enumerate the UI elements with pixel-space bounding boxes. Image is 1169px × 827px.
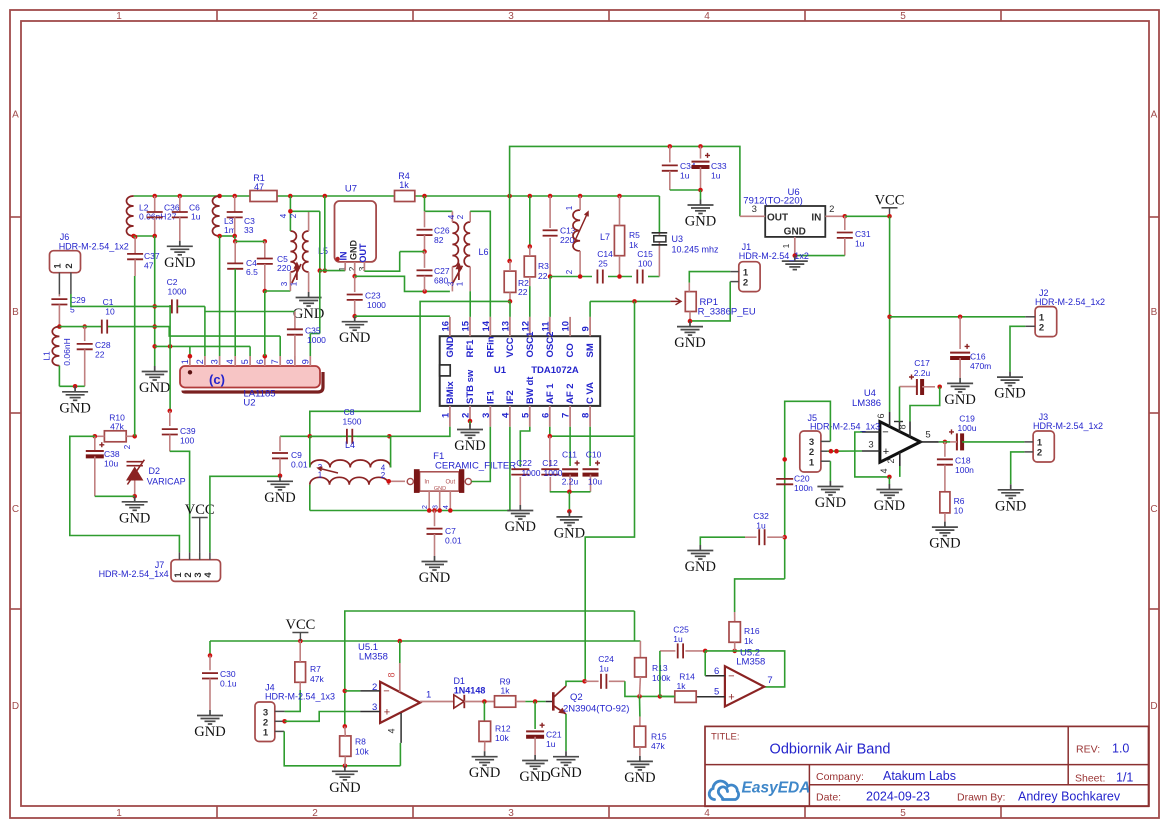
svg-text:R_3386P_EU: R_3386P_EU: [698, 307, 756, 318]
svg-text:1: 1: [565, 205, 574, 210]
filter F1 pin circles: [407, 478, 413, 484]
svg-text:8: 8: [581, 413, 592, 418]
capacitor C19 polarized horizontal: [956, 433, 958, 450]
wire osc bottom: [550, 276, 592, 278]
pin J1.2: [730, 281, 739, 283]
connector J5: [800, 431, 821, 472]
resistor R1: [250, 191, 277, 202]
pin U7.1: [344, 262, 346, 271]
IC U6 7912: [765, 206, 825, 237]
svg-text:L7: L7: [600, 232, 610, 242]
svg-text:4: 4: [443, 505, 450, 509]
svg-text:3: 3: [280, 281, 289, 286]
wire: [658, 196, 660, 233]
svg-text:7: 7: [767, 675, 772, 686]
svg-text:1: 1: [781, 243, 791, 248]
svg-text:2: 2: [123, 444, 132, 449]
pin J2.2: [1025, 325, 1035, 327]
svg-text:1k: 1k: [399, 180, 409, 190]
pin U6.3: [740, 215, 765, 217]
svg-text:C31: C31: [855, 229, 871, 239]
wire J1.1 to RP1: [689, 272, 730, 283]
wiper arrow RP1: [670, 300, 680, 302]
pin J5.1: [821, 460, 831, 462]
svg-text:C22: C22: [516, 458, 532, 468]
wire U1 pin7 C11: [569, 427, 571, 466]
inductor L3: [212, 196, 219, 236]
svg-text:OUT: OUT: [767, 213, 788, 224]
svg-text:1: 1: [809, 458, 815, 469]
title block row line 1: [705, 764, 1149, 766]
connector J4: [255, 702, 275, 742]
node: [132, 494, 137, 499]
svg-text:GND: GND: [994, 386, 1025, 402]
svg-text:R7: R7: [310, 664, 321, 674]
svg-text:C38: C38: [104, 449, 120, 459]
wire L6 sec top to U1 pin14: [470, 211, 490, 317]
wire: [170, 451, 190, 552]
svg-text:GND: GND: [194, 724, 225, 740]
node: [152, 304, 157, 309]
svg-text:6: 6: [540, 413, 551, 418]
ground below L1: [62, 386, 88, 400]
node: [582, 679, 587, 684]
connector J1: [739, 262, 760, 292]
svg-text:1: 1: [456, 281, 465, 286]
svg-text:10: 10: [561, 321, 572, 332]
svg-text:10k: 10k: [495, 733, 509, 743]
node: [688, 319, 693, 324]
node: [217, 234, 222, 239]
svg-text:1: 1: [263, 728, 269, 739]
node: [887, 475, 892, 480]
svg-text:HDR-M-2.54_1x2: HDR-M-2.54_1x2: [1035, 297, 1105, 307]
wire: [134, 195, 250, 197]
svg-text:1N4148: 1N4148: [454, 685, 486, 695]
ground below C16: [947, 378, 973, 392]
wire C35 feed: [205, 311, 295, 313]
svg-text:470m: 470m: [970, 361, 991, 371]
node: [937, 385, 942, 390]
U4 pin4: [899, 453, 901, 467]
wire: [134, 235, 136, 238]
svg-text:L1: L1: [42, 351, 52, 361]
connector J6: [50, 251, 81, 273]
ground below L5: [296, 292, 322, 306]
svg-text:Sheet:: Sheet:: [1075, 773, 1105, 785]
resistor R4: [395, 191, 415, 202]
U1 bottom pin stubs: [449, 406, 451, 427]
svg-text:A: A: [12, 110, 19, 121]
wire: [220, 235, 235, 237]
wire: [424, 196, 426, 211]
svg-text:C26: C26: [434, 226, 450, 236]
node: [188, 354, 193, 359]
svg-text:1k: 1k: [744, 636, 754, 646]
svg-text:R5: R5: [629, 230, 640, 240]
wire R2 line to C8 node: [310, 301, 510, 436]
title block outline: [705, 726, 1149, 806]
pin J6.1: [58, 273, 60, 295]
svg-text:1000: 1000: [367, 300, 386, 310]
ground below R8: [332, 766, 358, 780]
node: [843, 214, 848, 219]
wire: [290, 210, 319, 212]
wire inv input: [345, 690, 360, 692]
transformer L4 secondary: [310, 477, 389, 485]
svg-text:RFin: RFin: [485, 336, 496, 357]
svg-text:C30: C30: [220, 669, 236, 679]
svg-text:HDR-M-2.54_1x2: HDR-M-2.54_1x2: [59, 242, 129, 252]
wire R10 to J7.1: [70, 436, 180, 552]
ground below J2: [997, 372, 1023, 386]
svg-text:C7: C7: [445, 526, 456, 536]
node: [93, 434, 98, 439]
wire: [899, 466, 901, 477]
node: [73, 384, 78, 389]
svg-text:C: C: [12, 504, 19, 515]
node: [168, 344, 173, 349]
svg-text:B: B: [12, 307, 19, 318]
svg-text:GND: GND: [59, 400, 90, 416]
U5.1 pin8: [399, 641, 401, 663]
svg-text:VCC: VCC: [875, 192, 905, 208]
wire: [509, 196, 511, 261]
svg-text:3: 3: [210, 359, 220, 364]
svg-text:VCC: VCC: [285, 617, 315, 633]
transformer L5 primary: [290, 231, 296, 272]
svg-text:RF1: RF1: [465, 339, 476, 358]
wire: [950, 441, 957, 443]
svg-text:STB sw: STB sw: [465, 369, 476, 404]
wire J1.2 to RP1 bottom: [690, 282, 730, 321]
resistor R6: [940, 492, 950, 513]
pin J6.2: [70, 273, 72, 295]
wire SM net drop: [634, 301, 636, 436]
capacitor C10 polarized: [583, 468, 599, 470]
node: [829, 449, 834, 454]
svg-text:R3: R3: [538, 261, 549, 271]
svg-text:GND: GND: [784, 227, 806, 238]
capacitor C11 polarized: [562, 468, 578, 470]
wire: [178, 305, 205, 307]
svg-text:CO: CO: [565, 343, 576, 357]
capacitor C4: [234, 241, 236, 263]
wire: [659, 651, 661, 697]
transistor Q2: [546, 701, 554, 703]
node: [567, 490, 572, 495]
svg-text:6.5: 6.5: [246, 267, 258, 277]
wire J5.1 gnd: [829, 461, 831, 481]
capacitor C9: [279, 436, 281, 451]
svg-text:D2: D2: [149, 466, 161, 476]
node: [352, 314, 357, 319]
capacitor C1: [101, 320, 103, 334]
svg-text:−: −: [882, 427, 888, 439]
ground below C22: [507, 505, 533, 519]
svg-text:1u: 1u: [756, 521, 766, 531]
ground below C9: [267, 476, 293, 490]
svg-text:6: 6: [714, 666, 719, 677]
svg-text:GND: GND: [454, 438, 485, 454]
svg-text:C19: C19: [959, 414, 975, 424]
svg-text:Date:: Date:: [816, 792, 841, 804]
capacitor C30: [209, 656, 211, 671]
svg-text:2: 2: [64, 263, 75, 268]
ground below C30: [197, 710, 223, 724]
pin U6.1: [794, 237, 796, 256]
node: [343, 689, 348, 694]
node: [668, 144, 673, 149]
node: [637, 694, 642, 699]
svg-text:1: 1: [116, 808, 122, 819]
wire: [845, 215, 890, 217]
wire VCC rail down: [889, 216, 891, 412]
resistor R8: [340, 736, 351, 756]
svg-text:1.0: 1.0: [1112, 742, 1129, 756]
wire C1 line: [59, 326, 101, 328]
svg-text:1u: 1u: [855, 239, 865, 249]
pin J4.1: [275, 730, 284, 732]
svg-text:1u: 1u: [546, 739, 556, 749]
svg-text:3: 3: [372, 702, 377, 713]
capacitor C25: [660, 650, 676, 652]
trimmer arrow L6: [453, 264, 463, 283]
node: [468, 419, 473, 424]
wire U2 pin2 drop: [204, 306, 206, 356]
svg-text:3: 3: [481, 413, 492, 418]
wire C23 top net: [355, 276, 450, 291]
wire J5.2 to U4 plus: [828, 450, 862, 452]
svg-text:2024-09-23: 2024-09-23: [866, 790, 930, 804]
svg-text:In: In: [424, 480, 429, 486]
op-amp U4 LM386: [880, 422, 921, 463]
pin J1.1: [730, 271, 739, 273]
svg-text:C39: C39: [180, 426, 196, 436]
svg-text:R6: R6: [954, 496, 965, 506]
svg-text:HDR-M-2.54_1x4: HDR-M-2.54_1x4: [99, 569, 169, 579]
node: [887, 214, 892, 219]
svg-text:R16: R16: [744, 626, 760, 636]
wire L6 sec bottom to U1 pin15: [469, 291, 471, 317]
svg-text:C35: C35: [305, 326, 321, 336]
IC U2 LA1185 body: [180, 366, 320, 388]
svg-text:2N3904(TO-92): 2N3904(TO-92): [563, 704, 629, 715]
inductor L1: [52, 327, 59, 366]
svg-text:2.2u: 2.2u: [914, 368, 931, 378]
transformer L6 secondary: [464, 222, 470, 267]
svg-text:4: 4: [279, 213, 288, 218]
svg-text:GND: GND: [519, 769, 550, 785]
ground below J3: [998, 484, 1024, 498]
svg-text:GND: GND: [815, 495, 846, 511]
svg-text:47k: 47k: [651, 741, 665, 751]
wire: [529, 196, 531, 247]
svg-text:EasyEDA: EasyEDA: [742, 780, 811, 797]
svg-text:GND: GND: [119, 510, 150, 526]
svg-text:R15: R15: [651, 732, 667, 742]
svg-text:+: +: [384, 707, 390, 719]
svg-text:VCC: VCC: [505, 337, 516, 357]
svg-text:U7: U7: [345, 184, 357, 195]
op-amp U5.2 LM358: [725, 666, 764, 706]
svg-text:A: A: [1151, 110, 1158, 121]
title block logo cell line: [808, 765, 810, 807]
capacitor C39: [169, 411, 171, 426]
svg-text:+: +: [728, 692, 734, 704]
svg-text:100n: 100n: [794, 483, 813, 493]
svg-text:AF 1: AF 1: [545, 383, 556, 404]
wire output loop U5.2: [705, 651, 785, 687]
resistor R9: [495, 696, 516, 707]
capacitor C20: [776, 478, 793, 480]
wire J2.2 gnd: [1010, 326, 1025, 371]
node: [578, 274, 583, 279]
svg-text:10u: 10u: [104, 459, 118, 469]
wire U1 pin4 drop: [509, 427, 511, 511]
capacitor C28: [84, 327, 86, 342]
filter F1 body: [420, 472, 459, 491]
wire C17 right to pin8: [910, 387, 940, 422]
wire: [634, 611, 636, 641]
svg-text:33: 33: [244, 225, 254, 235]
svg-text:3: 3: [868, 440, 873, 451]
U4 pin1: [899, 422, 901, 433]
pin U6.2: [825, 215, 845, 217]
pin U7.2: [354, 262, 356, 276]
svg-text:GND: GND: [505, 519, 536, 535]
wire J6.2 to C2: [71, 294, 172, 306]
svg-text:1: 1: [116, 11, 122, 22]
svg-text:2: 2: [886, 458, 896, 463]
pin J7.1: [178, 552, 180, 559]
svg-text:16: 16: [440, 321, 451, 332]
svg-text:C17: C17: [914, 358, 930, 368]
IC U7: [335, 201, 377, 262]
svg-text:1: 1: [426, 690, 431, 701]
title block row line 2: [809, 784, 1148, 786]
svg-text:U1: U1: [494, 365, 507, 376]
svg-text:1: 1: [180, 359, 190, 364]
node: [887, 315, 892, 320]
U1 top pin stubs: [449, 317, 451, 336]
svg-text:1500: 1500: [343, 417, 362, 427]
pin1 dot U7: [336, 257, 340, 261]
wire: [235, 240, 265, 242]
svg-text:2: 2: [461, 413, 472, 418]
svg-text:C VA: C VA: [585, 382, 596, 404]
svg-text:2: 2: [195, 359, 205, 364]
trimmer arrow L4: [318, 467, 338, 473]
svg-text:1k: 1k: [677, 681, 687, 691]
capacitor C6: [179, 196, 181, 212]
svg-text:−: −: [728, 671, 734, 683]
U5.2 minus: [705, 675, 725, 677]
svg-text:15: 15: [461, 320, 472, 331]
svg-text:GND: GND: [329, 780, 360, 796]
capacitor C16 polarized: [959, 317, 961, 349]
wire U1 pin6 net: [549, 427, 551, 436]
IC U2 LA1185 shadow: [183, 372, 323, 392]
wire J2 feed: [890, 316, 1026, 318]
resistor R12: [483, 702, 485, 722]
ground below U6: [782, 256, 808, 270]
svg-text:(c): (c): [209, 372, 225, 387]
pin J4.3: [275, 710, 285, 712]
svg-text:2.2u: 2.2u: [562, 477, 579, 487]
wire U1 pin8 C10: [589, 427, 591, 466]
svg-text:GND: GND: [550, 765, 581, 781]
svg-text:TDA1072A: TDA1072A: [531, 365, 579, 376]
wire: [670, 189, 701, 191]
wire: [389, 480, 405, 482]
wire U1 pin13 riser: [509, 301, 511, 317]
wire R3 to U1 pin12: [529, 286, 531, 317]
ground below C36 line: [142, 366, 168, 380]
svg-text:8: 8: [898, 424, 908, 429]
svg-text:2: 2: [809, 447, 814, 458]
svg-text:6: 6: [876, 413, 886, 418]
resistor R10: [104, 431, 126, 442]
svg-text:GND: GND: [445, 336, 456, 357]
svg-text:2: 2: [422, 505, 429, 509]
capacitor C7: [434, 511, 436, 527]
svg-text:5: 5: [240, 359, 250, 364]
node: [482, 699, 487, 704]
svg-text:1: 1: [290, 281, 299, 286]
node: [533, 699, 538, 704]
capacitor C3: [234, 196, 236, 212]
node: [168, 409, 173, 414]
wire U2 pin6 riser: [264, 291, 266, 356]
svg-text:100k: 100k: [652, 673, 671, 683]
svg-text:IN: IN: [811, 213, 821, 224]
svg-text:5: 5: [900, 11, 906, 22]
svg-text:7: 7: [561, 413, 572, 418]
svg-text:22: 22: [95, 350, 105, 360]
svg-text:GND: GND: [264, 490, 295, 506]
node: [233, 239, 238, 244]
pin J3.1: [1024, 441, 1033, 443]
svg-text:2: 2: [829, 204, 834, 215]
wire: [169, 305, 171, 346]
svg-text:2: 2: [312, 808, 318, 819]
wire U2 pin9 drop: [309, 334, 311, 357]
svg-text:GND: GND: [164, 255, 195, 271]
svg-text:0.01: 0.01: [291, 460, 308, 470]
trimmer arrow L5: [292, 264, 301, 284]
svg-text:C21: C21: [546, 730, 562, 740]
capacitor C23: [354, 276, 356, 292]
node: [632, 299, 637, 304]
svg-text:HDR-M-2.54_1x3: HDR-M-2.54_1x3: [265, 692, 335, 702]
svg-text:IF1: IF1: [485, 390, 496, 404]
svg-text:C8: C8: [344, 407, 355, 417]
svg-text:12: 12: [520, 321, 531, 332]
wire: [795, 255, 845, 257]
ground below J5: [817, 481, 843, 495]
wire feedback long: [345, 611, 635, 726]
svg-text:Atakum Labs: Atakum Labs: [883, 769, 956, 783]
svg-text:CERAMIC_FILTER: CERAMIC_FILTER: [435, 461, 516, 472]
capacitor C32: [745, 536, 757, 538]
node: [508, 299, 513, 304]
ground below C11 C12: [556, 511, 582, 525]
svg-text:9: 9: [300, 359, 310, 364]
svg-text:6: 6: [255, 359, 265, 364]
pin1 mark U2: [188, 370, 192, 374]
wire: [415, 195, 660, 197]
